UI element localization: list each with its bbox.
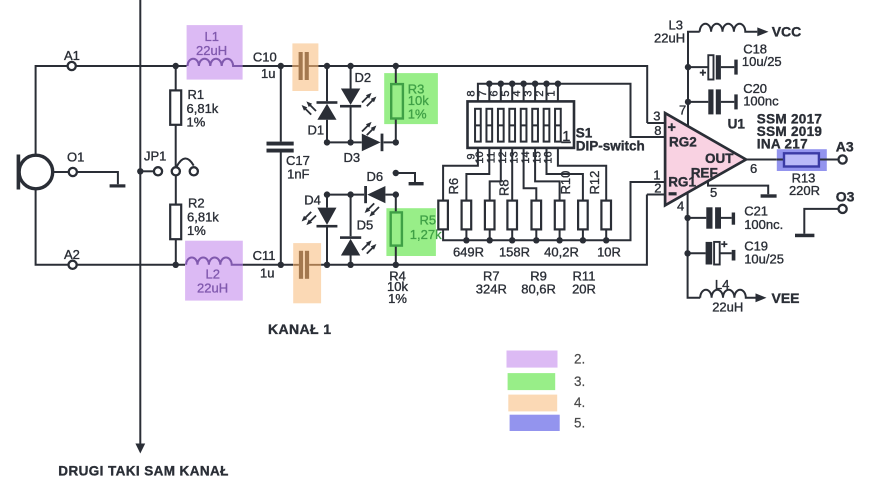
wire DIP bus to RG2 [478, 84, 665, 137]
svg-text:R1: R1 [188, 87, 205, 102]
node R4 label junction [393, 262, 399, 268]
svg-text:R8: R8 [497, 179, 512, 196]
svg-text:3: 3 [653, 108, 660, 123]
op-amp U1 [665, 113, 746, 205]
resistor R1 [175, 66, 177, 167]
svg-text:KANAŁ 1: KANAŁ 1 [268, 321, 331, 337]
svg-text:12: 12 [497, 151, 509, 163]
svg-text:L1: L1 [205, 29, 219, 44]
legend swatch 5 blue [510, 415, 560, 431]
wire arrow down [135, 444, 145, 454]
svg-text:O1: O1 [67, 150, 84, 165]
legend swatch 2 purple [507, 351, 558, 368]
DIP switch S1 [468, 101, 575, 147]
svg-text:R10: R10 [558, 171, 573, 195]
wire VCC riser pin7 [688, 32, 700, 127]
svg-text:VEE: VEE [772, 290, 800, 306]
svg-text:U1: U1 [728, 116, 746, 131]
wire VEE riser pin4 [688, 193, 701, 298]
resistor R8 [507, 201, 517, 230]
node O3 [839, 205, 847, 213]
svg-text:+: + [668, 120, 676, 136]
svg-text:1%: 1% [187, 115, 206, 130]
svg-text:100nc: 100nc [743, 93, 779, 108]
node D1/D3 row [324, 139, 330, 145]
legend swatch 4 orange [508, 395, 557, 412]
svg-text:8: 8 [466, 90, 478, 96]
resistor R7 [485, 201, 495, 230]
svg-text:220R: 220R [789, 183, 820, 198]
node C17 bottom [278, 262, 284, 268]
svg-text:REF: REF [691, 165, 718, 180]
svg-text:A1: A1 [64, 48, 80, 63]
wire C11 to pin2 riser [321, 195, 647, 265]
svg-text:13: 13 [508, 151, 520, 163]
capacitor C17 1nF [280, 66, 282, 265]
svg-text:22uH: 22uH [197, 281, 228, 296]
node D1 top [324, 63, 330, 69]
svg-text:D2: D2 [355, 70, 372, 85]
node D4/D5 bottom [324, 262, 330, 268]
svg-text:1%: 1% [388, 291, 407, 306]
wire L2 to C11 [243, 264, 293, 266]
svg-text:C11: C11 [253, 248, 276, 263]
inductor L4 22uH [700, 290, 755, 298]
node C20 junction [685, 99, 691, 105]
svg-text:10u/25: 10u/25 [742, 54, 782, 69]
svg-text:40,2R: 40,2R [544, 244, 579, 259]
svg-text:1%: 1% [187, 223, 206, 238]
svg-text:22uH: 22uH [712, 300, 743, 315]
ground O3 [795, 234, 814, 238]
svg-text:5.: 5. [574, 416, 585, 431]
svg-text:R12: R12 [587, 171, 602, 195]
svg-text:3.: 3. [574, 374, 585, 389]
svg-text:OUT: OUT [705, 151, 734, 166]
node C19 junction [684, 250, 690, 256]
node junction JP1 on vertical [137, 168, 143, 174]
svg-text:22uH: 22uH [196, 43, 227, 58]
node D2 top [347, 63, 353, 69]
node C21 junction [684, 215, 690, 221]
svg-text:1%: 1% [408, 106, 427, 121]
wire ladder bottom bus to RG1 [443, 182, 665, 240]
diode D4 (LED down) [326, 195, 328, 265]
resistor R13 220R (highlight 5) [777, 149, 827, 171]
wire fanout pin9 to col1 [443, 148, 478, 200]
wires resistor bottoms [466, 231, 606, 241]
capacitor C18 10u/25 [688, 66, 734, 68]
wire fanout pin13 [524, 148, 537, 200]
wire fanout pin11 [490, 148, 501, 200]
node R3 top [393, 63, 399, 69]
svg-text:14: 14 [520, 151, 532, 163]
wire O1 to ground [77, 172, 118, 184]
svg-text:L4: L4 [715, 277, 729, 292]
capacitor C19 10u/25 [688, 252, 732, 254]
node A1 [68, 62, 76, 70]
svg-text:7: 7 [477, 90, 489, 96]
svg-text:R6: R6 [446, 178, 461, 195]
switch slots [475, 109, 561, 142]
node O1 [53, 171, 69, 173]
svg-text:4: 4 [511, 90, 523, 96]
ground mid [409, 182, 424, 185]
svg-text:1nF: 1nF [287, 166, 309, 181]
node R2 bottom junction [173, 262, 179, 268]
diode D5 (LED up) [350, 195, 352, 265]
svg-text:D5: D5 [357, 218, 374, 233]
svg-text:80,6R: 80,6R [521, 281, 556, 296]
svg-text:5: 5 [500, 90, 512, 96]
svg-text:1u: 1u [261, 66, 275, 81]
resistor R6 [462, 201, 472, 230]
svg-text:100nc.: 100nc. [744, 217, 783, 232]
resistor R11 [578, 201, 588, 230]
diode D3 (LED right) [327, 141, 396, 143]
svg-text:JP1: JP1 [144, 149, 166, 164]
svg-text:O3: O3 [836, 188, 855, 204]
resistor R12 [601, 201, 611, 230]
node C17 top [278, 63, 284, 69]
svg-text:10: 10 [474, 151, 486, 163]
svg-text:2: 2 [654, 180, 661, 195]
svg-text:RG2: RG2 [669, 135, 697, 150]
legend swatch 3 green [508, 373, 556, 390]
svg-text:5: 5 [710, 185, 717, 200]
svg-text:15: 15 [531, 151, 543, 163]
resistor col1 [438, 201, 448, 230]
svg-text:2: 2 [534, 90, 546, 96]
node D6 right [393, 191, 399, 197]
svg-text:6,81k: 6,81k [187, 101, 219, 116]
resistor R2 [175, 176, 177, 265]
wire pin5 REF to ground [708, 181, 768, 195]
svg-text:A3: A3 [836, 139, 854, 155]
svg-text:R5: R5 [420, 213, 437, 228]
svg-text:8: 8 [654, 123, 661, 138]
wire O3 to ground [804, 209, 838, 234]
svg-text:A2: A2 [64, 247, 80, 262]
wire fanout pin12 [511, 148, 513, 200]
diode D2 (LED down) [350, 66, 352, 142]
wire fanout pin10 [466, 148, 489, 200]
svg-text:7: 7 [679, 102, 686, 117]
wire mic top to A1 row [36, 66, 68, 156]
wire op-amp output [746, 159, 777, 161]
diode D6 (LED left) [327, 194, 396, 196]
svg-text:2.: 2. [574, 352, 585, 367]
node ground branch [393, 170, 399, 176]
wire pin2 [647, 194, 665, 196]
svg-text:649R: 649R [453, 244, 484, 259]
wire DIP top stubs [489, 84, 558, 102]
ground at O1 [110, 184, 126, 187]
svg-text:VCC: VCC [772, 24, 802, 40]
svg-text:D4: D4 [304, 193, 321, 208]
svg-text:4: 4 [677, 199, 684, 214]
svg-text:D3: D3 [344, 150, 361, 165]
wire bottom rail A2 to L2 [77, 264, 185, 266]
svg-text:D6: D6 [367, 169, 384, 184]
svg-text:6,81k: 6,81k [187, 209, 219, 224]
microphone O1 [19, 155, 53, 189]
svg-text:6: 6 [750, 161, 757, 176]
svg-text:L2: L2 [206, 267, 220, 282]
svg-text:22uH: 22uH [654, 31, 685, 46]
svg-text:158R: 158R [499, 244, 530, 259]
node R1 top junction [173, 63, 179, 69]
svg-text:1: 1 [546, 90, 558, 96]
wire to mid ground [396, 173, 415, 182]
svg-text:10R: 10R [597, 244, 621, 259]
node A3 [839, 155, 847, 163]
svg-text:DIP-switch: DIP-switch [576, 138, 645, 153]
svg-text:11: 11 [486, 152, 498, 163]
resistor R10 [555, 201, 565, 230]
svg-text:4.: 4. [574, 395, 585, 410]
resistor R3 10k 1% (highlight 3) [384, 73, 438, 124]
svg-text:D1: D1 [308, 123, 325, 138]
wire pin3 from top rail [647, 122, 665, 124]
svg-text:C10: C10 [253, 50, 277, 65]
svg-text:1u: 1u [260, 266, 274, 281]
diode D1 (LED up) [326, 66, 328, 142]
svg-text:10u/25: 10u/25 [744, 251, 784, 266]
node bus dots pins 7..1 [486, 81, 492, 87]
wire L1 to C10 [243, 65, 293, 67]
inductor L1 22uH (highlight 2) [187, 25, 243, 80]
wire top rail A1 to L1 [76, 65, 187, 67]
node bus dots [463, 237, 469, 243]
inductor L3 22uH [700, 24, 758, 32]
svg-text:6: 6 [488, 90, 500, 96]
wire fanout pin14 [535, 148, 560, 200]
node C18 junction [685, 64, 691, 70]
svg-text:R2: R2 [188, 196, 205, 211]
svg-text:324R: 324R [476, 281, 507, 296]
node R3/D3 [393, 139, 399, 145]
svg-text:20R: 20R [572, 281, 596, 296]
capacitor C21 100nc. [688, 217, 732, 219]
wire C10 to diode network [318, 66, 647, 123]
wire mic bottom to A2 row [36, 189, 69, 265]
wire fanout pin16 [558, 148, 606, 200]
inductor L2 22uH (highlight 2) [185, 241, 243, 301]
node A2 [69, 261, 77, 269]
resistor R5 1,27k (highlight 3) [386, 208, 436, 256]
node D4 top row [324, 191, 330, 197]
wire fanout pin15 [547, 148, 583, 200]
resistor R9 [532, 201, 542, 230]
wire to JP1 [140, 170, 154, 172]
capacitor C20 100nc [688, 101, 734, 103]
wire: second-channel vertical line [139, 0, 141, 444]
svg-text:DRUGI TAKI SAM KANAŁ: DRUGI TAKI SAM KANAŁ [58, 463, 229, 478]
svg-text:3: 3 [523, 90, 535, 96]
svg-text:16: 16 [543, 151, 555, 163]
ground REF [761, 194, 777, 197]
